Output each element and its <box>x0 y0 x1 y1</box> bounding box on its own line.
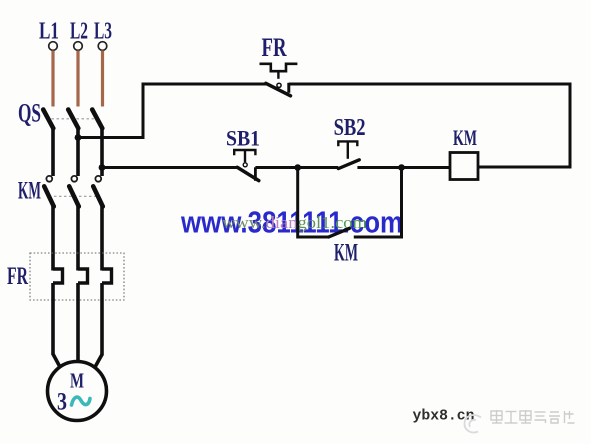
svg-text:L2: L2 <box>70 19 88 45</box>
svg-text:KM: KM <box>18 177 41 204</box>
svg-text:3: 3 <box>57 389 67 416</box>
svg-text:SB1: SB1 <box>226 126 260 151</box>
svg-text:FR: FR <box>7 263 29 290</box>
svg-text:L1: L1 <box>39 19 59 45</box>
svg-text:KM: KM <box>334 240 358 267</box>
svg-text:SB2: SB2 <box>334 115 366 141</box>
svg-text:KM: KM <box>453 125 477 150</box>
svg-text:M: M <box>70 369 84 393</box>
svg-text:QS: QS <box>18 99 41 128</box>
svg-text:L3: L3 <box>94 19 112 45</box>
svg-text:FR: FR <box>262 33 287 62</box>
